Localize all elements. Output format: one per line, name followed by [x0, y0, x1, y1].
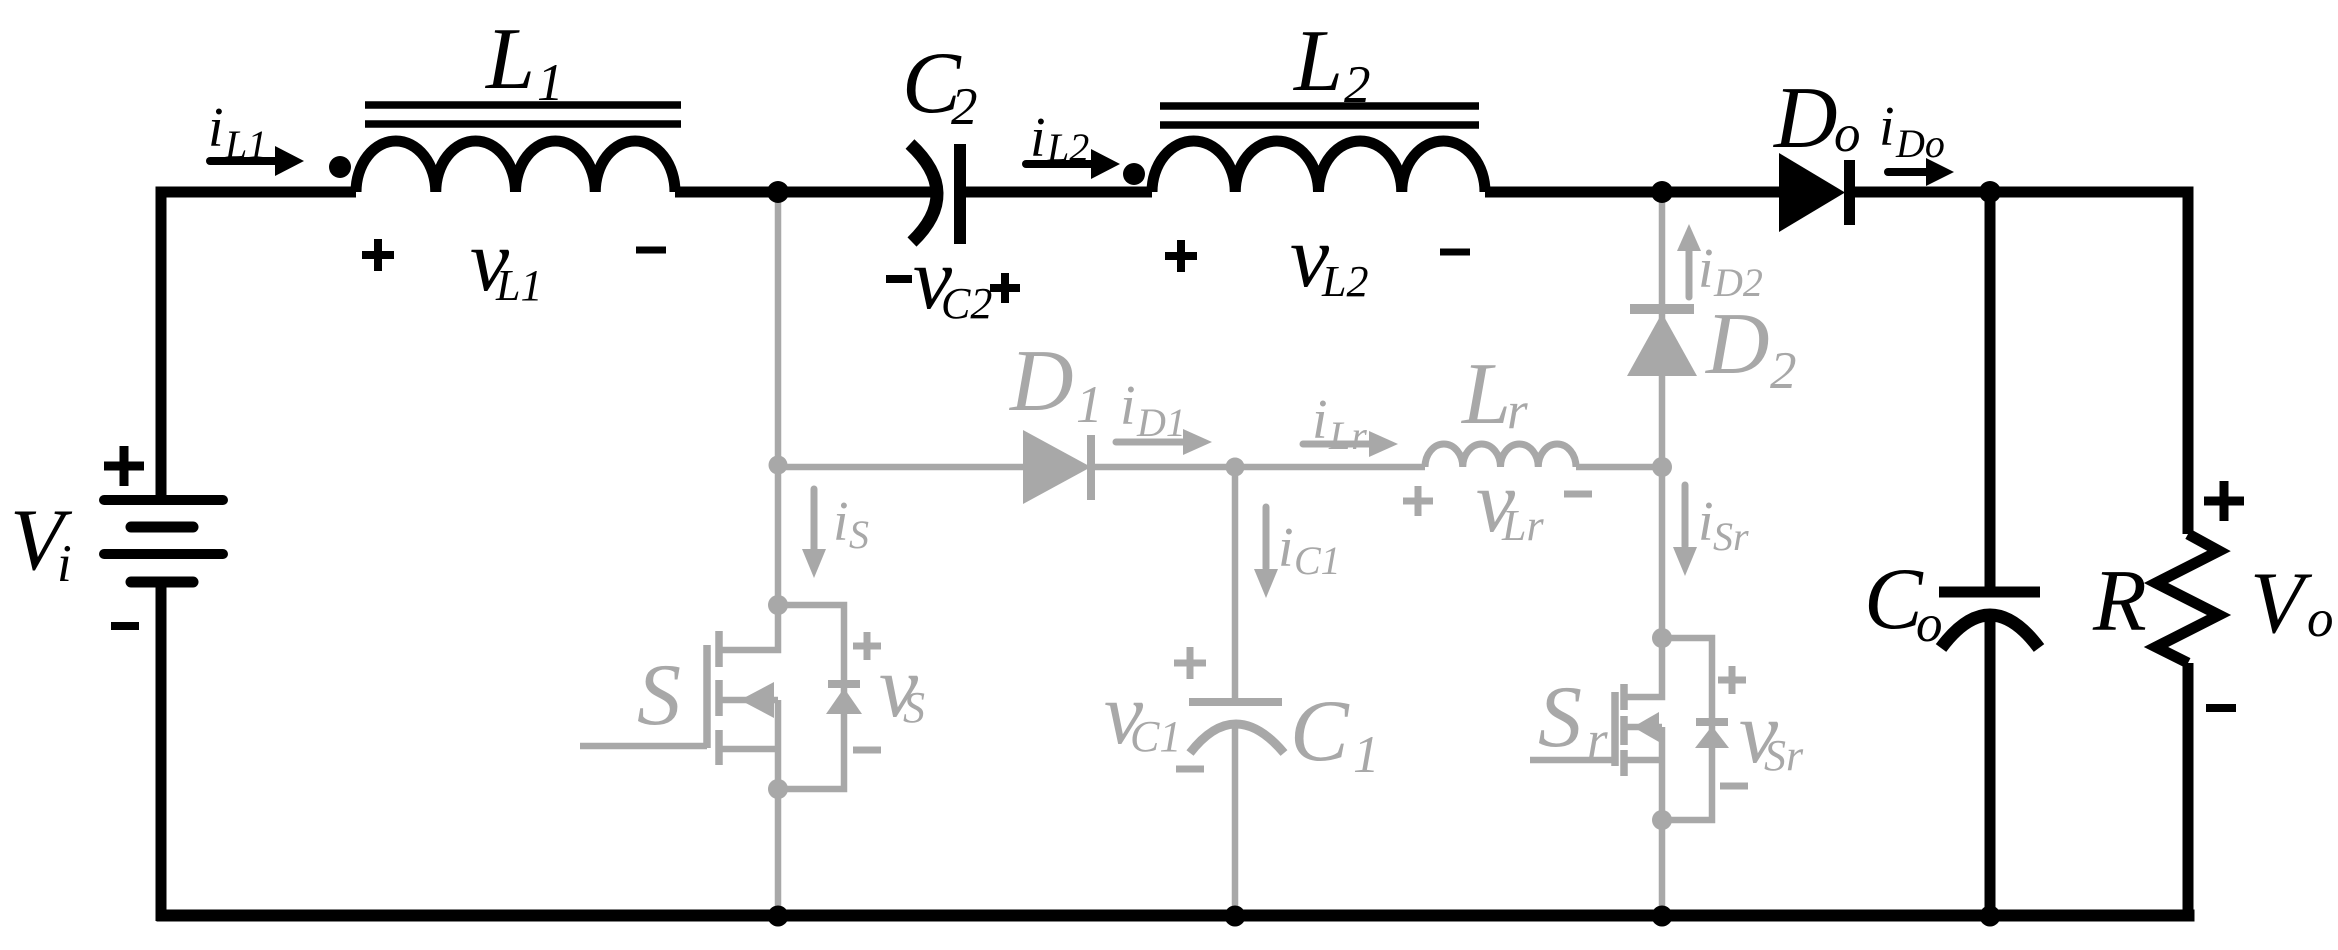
svg-text:D1: D1	[1136, 400, 1186, 445]
transistor S source/body leads	[722, 700, 778, 789]
node: bottom rail / Co branch	[1980, 906, 2001, 927]
battery Vi negative lead	[156, 577, 167, 921]
capacitor Co flat plate	[1939, 587, 2040, 598]
node: bottom rail / S branch	[768, 906, 789, 927]
svg-text:D: D	[1009, 333, 1074, 430]
transistor Sr channel bar	[1620, 684, 1628, 776]
svg-text:C1: C1	[1294, 538, 1341, 583]
diode D1	[1023, 430, 1091, 504]
inductor L1 core bars	[365, 105, 681, 124]
L2 phase dot	[1123, 163, 1145, 185]
black text labels	[10, 11, 2334, 653]
transistor S body arrow	[740, 682, 774, 718]
label: Vi plus	[104, 446, 144, 486]
label: vL2 minus	[1440, 249, 1470, 256]
svg-text:Sr: Sr	[1764, 731, 1804, 780]
node: Sr source dot	[1652, 810, 1672, 830]
arrow i_S	[811, 489, 818, 550]
svg-text:S: S	[1538, 669, 1582, 766]
capacitor C1 curved plate	[1190, 724, 1284, 753]
battery Vi positive lead + top-left corner + wire to L1	[161, 192, 356, 502]
wire: C1 branch top	[1232, 467, 1239, 702]
inductor L2 coil	[1152, 141, 1485, 192]
arrow i_Lr	[1303, 441, 1370, 448]
wire: Sr source to bottom rail	[1659, 820, 1666, 916]
transistor Sr gate lead	[1530, 757, 1615, 764]
battery plate short	[131, 522, 193, 533]
BLACK SECTION	[157, 105, 2220, 922]
wire: R bottom to bottom-right corner	[2183, 663, 2194, 922]
transistor S channel bar	[715, 631, 723, 765]
transistor S drain lead	[722, 605, 778, 650]
svg-text:S: S	[903, 683, 925, 732]
battery Vi plates	[104, 500, 223, 582]
svg-text:L1: L1	[495, 261, 542, 310]
label: Vo plus	[2204, 481, 2244, 521]
svg-text:L: L	[484, 11, 535, 108]
arrow i_Sr	[1682, 485, 1689, 546]
svg-text:i: i	[1698, 238, 1714, 300]
node: C1 top junction	[1226, 458, 1245, 477]
svg-text:L1: L1	[224, 122, 267, 167]
label: vSr minus	[1720, 783, 1748, 790]
svg-text:i: i	[57, 535, 72, 593]
svg-text:i: i	[1698, 491, 1714, 553]
node: S source dot	[768, 779, 788, 799]
black current arrows	[210, 161, 1926, 172]
resistor R zigzag	[2156, 534, 2219, 663]
svg-text:2: 2	[1770, 342, 1797, 400]
battery plate short bottom	[131, 577, 193, 588]
label: vSr plus	[1718, 666, 1746, 694]
wire: MOSFET S body-diode loop	[778, 605, 844, 789]
svg-text:C2: C2	[941, 279, 992, 328]
arrowhead i_D2	[1677, 224, 1701, 251]
node: gray rail / S drain junction	[769, 456, 788, 475]
gray current arrows	[814, 250, 1689, 568]
capacitor C2 flat plate	[954, 144, 966, 244]
gray text labels	[637, 238, 1804, 784]
arrowhead i_D1	[1183, 429, 1212, 455]
svg-text:D: D	[1705, 296, 1770, 393]
svg-text:C: C	[1864, 551, 1924, 648]
svg-text:C: C	[1290, 683, 1350, 780]
transistor Sr gate bar	[1611, 692, 1619, 766]
label: vL2 plus	[1165, 240, 1197, 272]
arrowhead i_L2	[1091, 149, 1120, 179]
inductor Lr coil	[1425, 444, 1576, 467]
wire: Lr to Sr branch node	[1576, 464, 1662, 471]
arrowhead i_S	[802, 549, 826, 578]
battery plate long	[104, 549, 223, 559]
svg-text:Lr: Lr	[1328, 413, 1367, 458]
wire: D1 cathode to C1 node to Lr	[1095, 464, 1425, 471]
node: S drain dot	[768, 595, 788, 615]
arrow i_D2	[1686, 250, 1693, 297]
label: vC1 plus	[1174, 647, 1206, 679]
node: top rail / D2 branch	[1651, 181, 1673, 203]
arrow i_C1	[1263, 507, 1270, 568]
capacitor C1 flat plate	[1189, 698, 1282, 706]
svg-text:i: i	[1312, 389, 1328, 451]
svg-text:2: 2	[951, 78, 978, 136]
transistor Sr body arrow	[1633, 712, 1659, 742]
inductor L2 core bars	[1160, 106, 1479, 125]
svg-text:i: i	[1278, 517, 1294, 579]
GRAY SECTION	[580, 192, 1712, 916]
svg-text:Do: Do	[1895, 121, 1945, 166]
label: vC1 minus	[1176, 766, 1204, 773]
label: vLr plus	[1403, 486, 1433, 516]
svg-text:S: S	[637, 647, 681, 744]
svg-text:i: i	[833, 491, 849, 553]
battery plate long top	[104, 495, 223, 505]
label: vC2 plus	[990, 273, 1020, 303]
arrowhead i_L1	[275, 146, 304, 176]
L1 phase dot	[329, 156, 351, 178]
label: vL1 plus	[362, 239, 394, 271]
svg-text:L2: L2	[1321, 257, 1368, 306]
arrowhead i_Sr	[1673, 547, 1697, 576]
svg-text:1: 1	[1076, 376, 1103, 434]
diode Do	[1779, 153, 1845, 232]
wire: S branch vertical from top rail node to MOSFET S drain	[775, 192, 782, 605]
arrowhead i_C1	[1254, 569, 1278, 598]
diode: S body diode	[828, 680, 860, 688]
arrow i_D1	[1116, 439, 1183, 446]
label: Vo minus	[2206, 704, 2236, 712]
label: vS plus	[853, 632, 881, 660]
svg-text:i: i	[208, 97, 224, 159]
svg-text:L: L	[1460, 346, 1511, 443]
svg-text:Lr: Lr	[1501, 501, 1544, 550]
wire: D2/Sr branch vertical from top rail	[1659, 197, 1666, 638]
svg-text:1: 1	[537, 54, 564, 112]
svg-text:R: R	[2092, 553, 2147, 650]
inductor L1 coil	[356, 141, 675, 192]
wire: Co bottom to bottom rail	[1985, 618, 1996, 916]
wire: L2 to diode Do	[1485, 187, 1779, 198]
svg-text:o: o	[2307, 590, 2334, 648]
svg-text:L2: L2	[1046, 125, 1089, 170]
node: Sr drain dot	[1652, 628, 1672, 648]
arrow i_L1	[210, 157, 275, 165]
svg-text:i: i	[1030, 107, 1046, 169]
svg-text:i: i	[1120, 375, 1136, 437]
transistor S gate lead	[580, 743, 707, 750]
svg-text:1: 1	[1353, 726, 1380, 784]
label: vL1 minus	[636, 247, 666, 254]
wire: L1 to C2	[675, 187, 932, 198]
wire: Do cathode to top-right corner down to R	[1855, 192, 2188, 534]
label: vC2 minus	[886, 275, 912, 283]
arrowhead i_Do	[1926, 158, 1954, 186]
capacitor C2 curved plate	[910, 144, 937, 242]
svg-text:r: r	[1587, 711, 1608, 769]
transistor S gate bar	[703, 645, 711, 748]
svg-text:o: o	[1834, 105, 1861, 163]
arrow i_Do	[1888, 168, 1926, 176]
transistor Sr source/body leads	[1627, 727, 1662, 820]
node: top rail / Co branch	[1979, 181, 2001, 203]
arrow i_L2	[1026, 160, 1091, 168]
diode: Sr body diode	[1696, 718, 1728, 726]
wire: bottom rail	[157, 910, 2195, 922]
node: Lr / Sr branch junction	[1652, 457, 1672, 477]
node: bottom rail / Sr branch	[1652, 906, 1673, 927]
svg-text:C1: C1	[1130, 712, 1181, 761]
svg-text:r: r	[1507, 382, 1528, 440]
capacitor Co curved plate	[1941, 615, 2039, 648]
arrowhead i_Lr	[1369, 431, 1398, 457]
svg-text:V: V	[2250, 555, 2313, 652]
svg-text:L: L	[1292, 13, 1343, 110]
wire: MOSFET Sr body-diode loop	[1662, 638, 1712, 820]
wire: S source to bottom rail	[775, 789, 782, 916]
label: Vi minus	[111, 622, 139, 630]
wire: C1 bottom to bottom rail	[1232, 724, 1239, 916]
svg-text:o: o	[1916, 595, 1943, 653]
transistor Sr drain lead	[1627, 638, 1662, 697]
svg-text:D: D	[1773, 70, 1838, 167]
diode D2	[1627, 313, 1697, 376]
node: bottom rail / C1 branch	[1225, 906, 1246, 927]
label: vS minus	[853, 747, 881, 754]
plus/minus polarity marks (gray)	[853, 486, 1748, 786]
node: top rail / S branch	[767, 181, 789, 203]
wire: C2 to L2	[966, 187, 1152, 198]
svg-text:S: S	[849, 512, 869, 557]
label: vLr minus	[1564, 491, 1592, 498]
svg-text:2: 2	[1344, 56, 1371, 114]
svg-text:Sr: Sr	[1713, 514, 1749, 559]
svg-text:i: i	[1879, 96, 1895, 158]
wire: gray middle rail D1 segment	[778, 464, 1023, 471]
wire: Co branch top	[1985, 192, 1996, 592]
plus/minus polarity marks (black)	[104, 239, 2244, 708]
